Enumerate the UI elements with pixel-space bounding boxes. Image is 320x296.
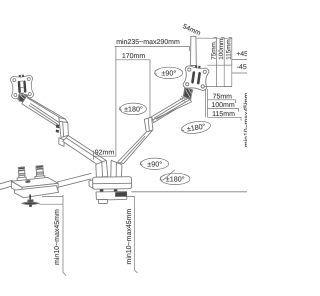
svg-text:170mm: 170mm	[122, 53, 146, 60]
svg-text:75mm: 75mm	[213, 93, 233, 100]
svg-text:min235~max290mm: min235~max290mm	[116, 38, 180, 46]
svg-text:100mm: 100mm	[211, 102, 235, 109]
svg-text:+45°: +45°	[236, 51, 247, 58]
svg-text:min10~max45mm: min10~max45mm	[53, 209, 61, 265]
svg-text:min10~max45mm: min10~max45mm	[244, 92, 247, 147]
svg-text:92mm: 92mm	[95, 149, 115, 156]
svg-text:min10~max45mm: min10~max45mm	[125, 209, 133, 265]
svg-text:±180°: ±180°	[166, 174, 185, 183]
svg-text:115mm: 115mm	[212, 111, 235, 118]
svg-text:±90°: ±90°	[147, 159, 162, 168]
svg-text:±90°: ±90°	[161, 68, 176, 77]
svg-text:-45°: -45°	[237, 64, 247, 71]
svg-text:±180°: ±180°	[124, 104, 143, 113]
